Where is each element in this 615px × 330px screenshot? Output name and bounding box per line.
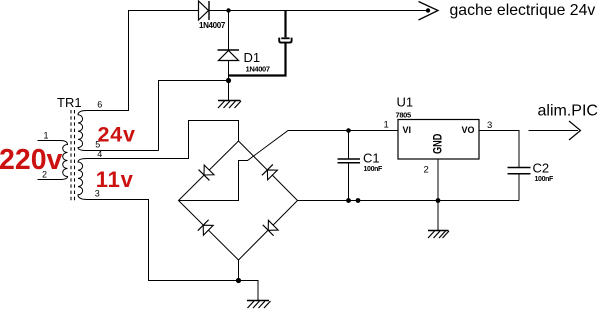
svg-text:2: 2	[424, 164, 429, 175]
svg-text:VO: VO	[462, 125, 475, 135]
svg-text:1N4007: 1N4007	[199, 21, 226, 30]
svg-text:VI: VI	[403, 125, 412, 135]
svg-text:3: 3	[487, 120, 492, 131]
svg-text:4: 4	[97, 149, 102, 159]
svg-text:D1: D1	[244, 50, 261, 65]
svg-text:7805: 7805	[396, 110, 411, 119]
svg-text:GND: GND	[433, 133, 445, 154]
svg-text:1: 1	[44, 130, 49, 140]
svg-text:11v: 11v	[96, 167, 134, 192]
svg-text:100nF: 100nF	[364, 166, 384, 173]
svg-text:U1: U1	[397, 95, 414, 110]
svg-text:TR1: TR1	[57, 95, 82, 110]
svg-text:gache electrique 24v: gache electrique 24v	[450, 2, 596, 19]
svg-text:1: 1	[384, 120, 389, 131]
svg-text:6: 6	[97, 100, 102, 110]
svg-text:C2: C2	[533, 161, 550, 176]
svg-text:C1: C1	[363, 151, 380, 166]
svg-text:100nF: 100nF	[535, 176, 555, 183]
svg-text:24v: 24v	[98, 122, 136, 146]
svg-text:1N4007: 1N4007	[246, 65, 270, 74]
svg-text:alim.PIC: alim.PIC	[538, 103, 598, 120]
svg-text:220v: 220v	[0, 144, 63, 176]
